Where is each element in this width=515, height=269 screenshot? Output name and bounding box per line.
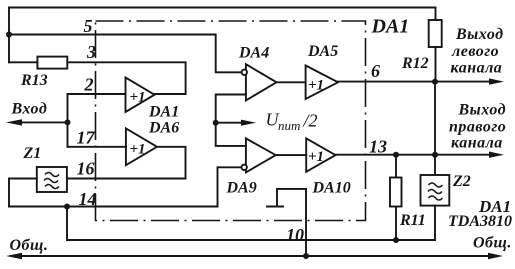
arrow Vhod left bbox=[6, 119, 22, 125]
wire pin 13 output line bbox=[336, 154, 436, 156]
op-amp DA9 triangle bbox=[246, 138, 276, 172]
wire DA1 output to feedback bbox=[155, 93, 186, 95]
svg-text:17: 17 bbox=[77, 128, 96, 148]
arrow output left channel bbox=[489, 78, 504, 84]
wire R13 left lead bbox=[9, 61, 37, 63]
svg-text:Выход: Выход bbox=[455, 26, 504, 43]
wire Vhod input line bbox=[20, 121, 68, 123]
wire output left arrow line bbox=[435, 81, 492, 83]
arrow Obsh right bbox=[488, 253, 503, 259]
svg-text:пит: пит bbox=[278, 118, 300, 133]
wire top rail from left vertical to R12 bbox=[9, 8, 436, 21]
wire R11 top lead bbox=[395, 155, 397, 178]
svg-text:Общ.: Общ. bbox=[473, 235, 512, 252]
wire pin 16 from Z1 to vertical bbox=[67, 178, 186, 180]
svg-text:14: 14 bbox=[79, 189, 97, 209]
svg-text:R12: R12 bbox=[401, 55, 429, 72]
svg-text:DA4: DA4 bbox=[238, 45, 269, 62]
wire pin 6 output line bbox=[338, 81, 435, 83]
node junction Upit (215.7,122.7) bbox=[213, 120, 219, 126]
wire pin 5 horizontal bbox=[9, 35, 242, 73]
svg-text:R11: R11 bbox=[399, 212, 426, 229]
wire bottom common rail bbox=[18, 255, 491, 257]
node junction R11 bottom (396,240) bbox=[393, 237, 399, 243]
wire Upit node vertical bbox=[216, 95, 246, 146]
filter symbol waves Z2 bbox=[429, 183, 443, 187]
wire vertical between outputs bbox=[434, 82, 436, 175]
node junction (306,256) bbox=[303, 253, 309, 259]
op-amp DA6 buffer triangle bbox=[126, 128, 157, 165]
node junction (396,154.7) bbox=[393, 152, 399, 158]
dash-dot IC boundary DA1 bbox=[96, 21, 366, 221]
wire R12 bottom to pin6 node bbox=[435, 47, 437, 82]
wire ground return vertical x=67 bbox=[67, 206, 435, 241]
svg-text:канала: канала bbox=[451, 135, 503, 152]
node junction at (9,34.5) bbox=[6, 32, 12, 38]
svg-text:2: 2 bbox=[84, 75, 94, 95]
resistor R12 bbox=[429, 20, 442, 47]
svg-text:правого: правого bbox=[449, 119, 506, 136]
wire Upit arrow line bbox=[216, 122, 244, 124]
svg-text:3: 3 bbox=[86, 42, 96, 62]
wire input vertical x=67.5 bbox=[67, 94, 69, 147]
svg-text:13: 13 bbox=[369, 137, 387, 157]
svg-text:R13: R13 bbox=[20, 72, 48, 89]
pin circle DA9 inverting input bbox=[242, 165, 247, 170]
wire DA9 output to DA10 bbox=[276, 154, 307, 156]
svg-text:Вход: Вход bbox=[11, 101, 48, 118]
svg-text:+1: +1 bbox=[308, 149, 324, 165]
resistor R13 bbox=[37, 57, 67, 69]
svg-text:DA1: DA1 bbox=[148, 104, 179, 121]
svg-text:/2: /2 bbox=[303, 111, 318, 131]
svg-text:+1: +1 bbox=[308, 78, 324, 94]
svg-text:левого: левого bbox=[451, 43, 499, 60]
wire Z1 left lead down to pin14 line bbox=[9, 179, 37, 207]
wire pin 3 from R13 to feedback corner bbox=[67, 62, 185, 94]
svg-text:5: 5 bbox=[84, 16, 93, 36]
op-amp DA10 buffer triangle bbox=[306, 138, 335, 171]
wire pin 14 line bbox=[9, 167, 241, 206]
svg-text:+1: +1 bbox=[130, 142, 146, 158]
svg-text:Общ.: Общ. bbox=[10, 237, 49, 254]
svg-text:DA9: DA9 bbox=[226, 180, 257, 197]
svg-text:DA6: DA6 bbox=[148, 120, 179, 137]
svg-text:Z1: Z1 bbox=[23, 145, 42, 162]
svg-text:канала: канала bbox=[451, 60, 503, 77]
op-amp DA5 buffer triangle bbox=[306, 66, 338, 100]
filter Z2 bbox=[421, 175, 450, 206]
wire DA4 output to DA5 bbox=[277, 81, 306, 83]
resistor R11 bbox=[390, 178, 402, 207]
op-amp DA1 buffer triangle bbox=[126, 78, 155, 113]
filter symbol waves Z1 bbox=[44, 173, 443, 201]
ground symbol inside IC bbox=[277, 189, 306, 206]
svg-text:DA10: DA10 bbox=[312, 180, 351, 197]
wire left vertical x=9 top bbox=[8, 8, 10, 63]
svg-text:Z2: Z2 bbox=[452, 173, 471, 190]
arrow Upit right bbox=[241, 120, 256, 126]
arrow output right channel bbox=[489, 152, 504, 158]
svg-text:TDA3810: TDA3810 bbox=[448, 213, 512, 230]
op-amp DA4 triangle bbox=[246, 64, 277, 100]
wire pin 2 input to DA1 bbox=[68, 93, 126, 95]
wire output right arrow line bbox=[435, 154, 492, 156]
svg-text:DA5: DA5 bbox=[307, 43, 338, 60]
node junction input (67.5,122.4) bbox=[65, 119, 71, 125]
svg-text:6: 6 bbox=[371, 61, 380, 81]
node junction (67,206.5) bbox=[64, 204, 70, 210]
svg-text:DA1: DA1 bbox=[371, 16, 410, 38]
svg-text:Выход: Выход bbox=[458, 102, 507, 119]
pin circle DA4 inverting input bbox=[242, 70, 247, 75]
svg-text:16: 16 bbox=[77, 159, 95, 179]
wire pin 17 to DA6 bbox=[68, 146, 126, 148]
svg-text:+1: +1 bbox=[130, 90, 146, 106]
filter Z1 bbox=[37, 167, 67, 192]
svg-text:10: 10 bbox=[286, 225, 304, 245]
arrow Obsh left bbox=[6, 253, 22, 259]
node junction (435,154.7) bbox=[432, 152, 438, 158]
node junction (435,81.6) bbox=[432, 79, 438, 85]
wire pin 10 vertical bbox=[305, 189, 307, 256]
wire R11 bottom lead bbox=[395, 207, 397, 241]
wire DA6 output to pin16 bbox=[157, 147, 186, 179]
